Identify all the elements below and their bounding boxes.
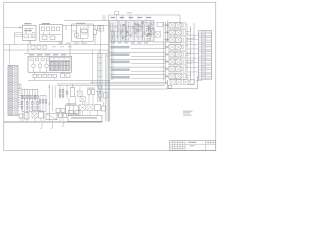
- G chain 2: [62, 87, 64, 98]
- G tall rect: [70, 88, 75, 97]
- relay K2: [38, 64, 42, 68]
- drop x30.5: [30, 40, 32, 44]
- transformer T1: [77, 91, 82, 96]
- B area tint: [110, 21, 154, 42]
- wire rail y53.4: [24, 52, 109, 54]
- bus ticks: [107, 51, 110, 53]
- wire rail y80.4: [28, 79, 110, 81]
- G right rects: [88, 90, 91, 95]
- wire top rail y20.5: [64, 20, 154, 22]
- right lower xbox1: [80, 105, 86, 111]
- right lower xbox2: [87, 105, 93, 111]
- X1 stub wires: [18, 88, 22, 90]
- wire x49.2: [48, 84, 50, 111]
- diode cluster on rails: [31, 45, 35, 49]
- wire rail y59.7: [110, 59, 166, 61]
- bridge VD1: [149, 29, 155, 35]
- X2 col text: [202, 31, 205, 34]
- B under labels: [111, 42, 115, 43]
- R wires: [196, 80, 202, 82]
- filter box A2: [40, 25, 63, 42]
- connector X1 table: [8, 65, 18, 115]
- wire drop x66: [65, 25, 67, 30]
- drop hook 3: [62, 123, 64, 127]
- resistor near VT1: [93, 30, 96, 35]
- wire rail drop x180: [179, 15, 181, 24]
- wire rail y122.7: [4, 122, 102, 124]
- wire rail y74.6: [110, 74, 166, 76]
- B grid: [109, 21, 111, 42]
- below-E wires: [34, 72, 36, 74]
- wire rail y52.2: [110, 51, 166, 53]
- resistor bank F2: [39, 95, 41, 111]
- aux box A4: [98, 26, 104, 32]
- wire rail y85.5: [57, 85, 165, 87]
- right lower rect4: [102, 106, 106, 111]
- IC DD2: [60, 61, 70, 70]
- X1 col text: [9, 66, 12, 67]
- connector X2 table: [198, 31, 211, 79]
- opto unit U8: [164, 75, 169, 77]
- notes text: [183, 110, 193, 113]
- E top cells: [30, 58, 33, 61]
- strip verticals: [22, 111, 24, 121]
- vertical bus pair: [108, 21, 110, 122]
- wires under cluster: [77, 38, 89, 40]
- drop x61: [60, 41, 62, 44]
- opto unit U4: [164, 46, 169, 48]
- G crossing verticals: [52, 86, 54, 112]
- opto unit U7: [164, 68, 169, 70]
- wire rail y83.9: [57, 83, 168, 85]
- A2 inner parts: [42, 27, 45, 31]
- vertical bus extra: [111, 30, 113, 80]
- wire rail y25.3: [63, 24, 109, 26]
- label bar 5: [111, 76, 130, 79]
- collector-table stubs: [187, 34, 198, 36]
- wire rail y50: [4, 49, 109, 51]
- drop x70: [69, 45, 71, 57]
- label bar 1: [110, 46, 129, 49]
- A1 left stubs: [15, 32, 23, 34]
- box C6 outline: [153, 21, 155, 42]
- wire rail y121.4: [4, 120, 102, 122]
- strip mid rects: [59, 114, 63, 118]
- G wires upper: [59, 86, 61, 88]
- G chain 3: [66, 87, 68, 98]
- transformer T2: [80, 96, 85, 101]
- drop hook 1: [40, 123, 42, 129]
- group box right edge: [92, 50, 94, 84]
- strip box 3: [46, 114, 57, 120]
- G chain 1: [59, 87, 61, 98]
- opto unit U5: [164, 53, 169, 55]
- component above B: [115, 12, 119, 15]
- right lower rect3: [95, 105, 101, 111]
- B top drops: [121, 15, 123, 21]
- label bar 3: [111, 61, 130, 64]
- A2 label: [42, 23, 50, 24]
- relay K1: [32, 64, 36, 68]
- B bottom line: [110, 40, 154, 42]
- E thin strip: [50, 58, 71, 60]
- label bar 2: [110, 53, 129, 56]
- array feed bus: [165, 22, 167, 84]
- driver box A3: [72, 24, 94, 41]
- G right circle: [98, 93, 102, 97]
- wire rail y82.2: [90, 81, 168, 83]
- collector wires: [186, 24, 188, 80]
- E labels row: [29, 54, 34, 55]
- transistor VT1: [81, 28, 87, 34]
- wire rail y44.5: [4, 44, 109, 46]
- relay K3: [45, 64, 49, 68]
- wire top rail y15: [109, 14, 181, 16]
- opto unit U3: [164, 39, 169, 41]
- X1 top wires: [19, 84, 21, 89]
- opto unit U1: [164, 24, 169, 26]
- B labels row: [111, 17, 116, 18]
- title block: [170, 140, 216, 150]
- G right verticals: [98, 86, 100, 90]
- opto unit U6: [164, 61, 169, 63]
- left lower cluster: [56, 109, 60, 113]
- label bar 4: [111, 68, 130, 71]
- strip cluster 2: [32, 113, 37, 118]
- R inner units: [170, 80, 175, 85]
- A1 inner parts: [24, 34, 27, 38]
- opto unit U2: [164, 31, 169, 33]
- VT1 aux parts: [76, 25, 78, 38]
- strip cluster 1: [19, 114, 23, 118]
- A1 label: [24, 23, 31, 24]
- array feed wires: [131, 44, 166, 46]
- drop hook 2: [51, 123, 53, 129]
- wire rail y67.1: [110, 66, 166, 68]
- frame drop x9.3: [8, 45, 10, 66]
- bus top stubs: [102, 15, 104, 21]
- resistor bank F: [21, 89, 23, 111]
- mid box H1: [66, 105, 79, 114]
- power box A1: [23, 25, 37, 40]
- IC DD1: [50, 61, 59, 70]
- B cell parts: [110, 24, 112, 32]
- A1 wire in: [4, 27, 23, 29]
- G right small: [104, 93, 108, 99]
- sheet frame: [4, 2, 216, 150]
- wire y89 right: [98, 88, 167, 90]
- bus group x97-102: [97, 53, 99, 102]
- lower wires: [82, 102, 84, 105]
- bus group x105-107: [105, 54, 107, 121]
- rail labels: [58, 43, 63, 44]
- below-E rects: [33, 74, 37, 77]
- module box E: [28, 56, 72, 72]
- strip wide box: [68, 116, 102, 122]
- output box R: [167, 80, 169, 89]
